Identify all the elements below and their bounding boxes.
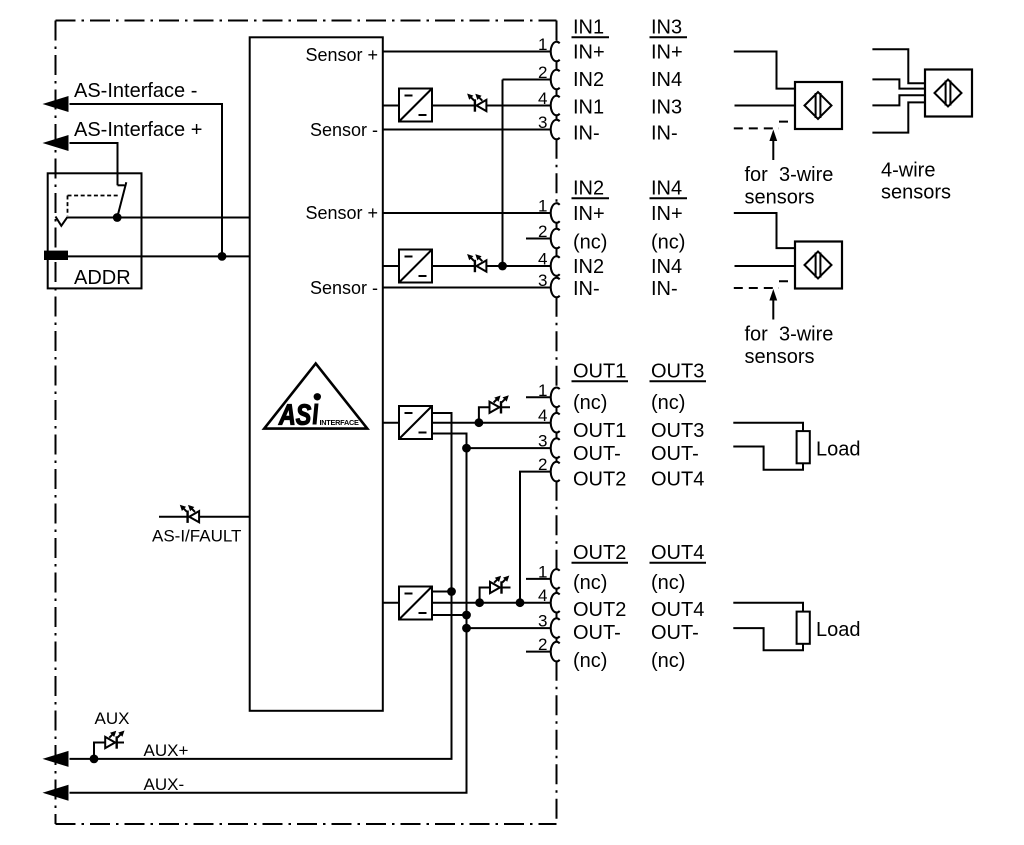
svg-text:AS-Interface -: AS-Interface - <box>74 80 197 102</box>
svg-text:(nc): (nc) <box>651 232 685 254</box>
connector socket IN1 pin1 <box>551 42 560 62</box>
svg-text:2: 2 <box>538 455 547 474</box>
wire switch output to module box <box>67 217 250 219</box>
wire module to opto U2 <box>383 265 399 267</box>
wire opto U3 to pin 4 OUT1 <box>432 422 551 424</box>
stub pin 1 (nc) OUT1 group <box>526 396 551 398</box>
junction opto U4 top / AUX+ rail <box>447 587 456 596</box>
connector socket OUT1 pin2 <box>551 462 560 482</box>
svg-text:(nc): (nc) <box>573 392 607 414</box>
svg-text:for 3-wire: for 3-wire <box>745 324 834 346</box>
wire AS-Interface - horizontal <box>70 103 223 105</box>
module electronics box <box>250 37 383 711</box>
wire 3-wire sensor1 brown <box>734 52 795 89</box>
svg-text:OUT-: OUT- <box>651 622 699 644</box>
svg-text:(nc): (nc) <box>651 650 685 672</box>
connector socket OUT1 pin1 <box>551 388 560 408</box>
stub pin 1 (nc) OUT2 group <box>526 578 551 580</box>
wire pin 2 OUT2-link (OUT1) <box>520 472 551 603</box>
wire AS-Interface + horizontal <box>70 142 118 144</box>
svg-text:sensors: sensors <box>745 187 815 209</box>
svg-text:OUT2: OUT2 <box>573 542 626 564</box>
svg-text:OUT-: OUT- <box>651 443 699 465</box>
sensor symbol 4-wire <box>925 70 972 117</box>
svg-text:Sensor -: Sensor - <box>310 120 378 140</box>
svg-text:AS-I/FAULT: AS-I/FAULT <box>152 527 241 546</box>
module boundary dash-dot border (bottom) <box>56 823 557 825</box>
svg-text:AUX-: AUX- <box>144 775 185 794</box>
svg-text:1: 1 <box>538 35 547 54</box>
opto-coupler U1 (IN1) <box>399 89 432 122</box>
LED OUT2 <box>490 582 500 593</box>
wire ADDR bottom to module box <box>66 255 250 257</box>
wire opto U3 bottom output to OUT- rail <box>70 434 467 793</box>
wire load2 top <box>733 603 803 612</box>
wire OUT1 LED stub <box>479 407 510 422</box>
svg-text:OUT2: OUT2 <box>573 599 626 621</box>
junction OUT1 LED <box>475 418 484 427</box>
svg-text:AUX: AUX <box>95 709 130 728</box>
svg-text:Load: Load <box>816 619 861 641</box>
wire Sensor- (IN1) to pin 3 <box>383 129 551 131</box>
connector socket IN2 pin1 <box>551 203 560 223</box>
connector socket IN2 pin2 <box>551 229 560 249</box>
svg-text:3: 3 <box>538 432 547 451</box>
svg-text:4: 4 <box>538 89 547 108</box>
switch actuator dashed link vertical <box>67 196 69 216</box>
stub pin 2 (nc) OUT2 group <box>526 651 551 653</box>
junction OUT2-link/pin4 <box>516 598 525 607</box>
svg-text:3: 3 <box>538 271 547 290</box>
module boundary dash-dot border (left) <box>55 21 57 825</box>
wire AS-Interface + vertical drop to switch <box>117 142 119 185</box>
svg-text:Sensor +: Sensor + <box>305 45 378 65</box>
svg-text:4-wire: 4-wire <box>881 160 935 182</box>
svg-text:for 3-wire: for 3-wire <box>745 164 834 186</box>
wire pin 2 IN2 horizontal <box>503 79 552 81</box>
wire opto U4 top output <box>432 591 452 593</box>
wire 3-wire sensor1 black <box>735 105 796 107</box>
connector socket IN1 pin4 <box>551 96 560 116</box>
svg-text:Load: Load <box>816 439 861 461</box>
connector socket OUT1 pin4 <box>551 413 560 433</box>
svg-text:IN-: IN- <box>573 123 600 145</box>
wire Sensor- (IN2) to pin 3 <box>383 287 551 289</box>
svg-text:IN+: IN+ <box>573 42 605 64</box>
sensor symbol 3-wire #2 <box>795 242 842 289</box>
svg-text:IN1: IN1 <box>573 17 604 39</box>
wire Sensor+ (IN1) to pin 1 <box>383 51 551 53</box>
opto-coupler U3 (OUT1) <box>399 406 432 439</box>
wire 3-wire sensor1 blue dashed <box>734 127 779 129</box>
svg-text:OUT1: OUT1 <box>573 420 626 442</box>
svg-text:1: 1 <box>538 197 547 216</box>
svg-text:IN3: IN3 <box>651 97 682 119</box>
svg-text:IN2: IN2 <box>573 69 604 91</box>
svg-text:2: 2 <box>538 63 547 82</box>
AS-Interface logo <box>264 364 367 429</box>
svg-text:AS-Interface +: AS-Interface + <box>74 119 202 141</box>
svg-text:(nc): (nc) <box>573 572 607 594</box>
svg-text:IN3: IN3 <box>651 17 682 39</box>
junction IN2 pin2-link/pin4 <box>498 262 507 271</box>
wire 4-wire sensor line2 <box>872 79 925 88</box>
junction OUT2 LED <box>475 598 484 607</box>
svg-text:OUT3: OUT3 <box>651 361 704 383</box>
svg-text:OUT1: OUT1 <box>573 361 626 383</box>
arrow AS-Interface - terminal <box>43 96 69 112</box>
junction AUX LED <box>90 755 99 764</box>
sensor symbol 3-wire #1 <box>795 82 842 129</box>
connector socket OUT1 pin3 <box>551 438 560 458</box>
opto-coupler U2 (IN2) <box>399 250 432 283</box>
wire module to opto U4 <box>383 602 399 604</box>
wire 4-wire sensor line4 <box>872 102 925 132</box>
connector socket IN2 pin3 <box>551 278 560 298</box>
connector socket IN1 pin3 <box>551 120 560 140</box>
LED IN2 <box>477 260 487 271</box>
svg-text:AS: AS <box>278 398 312 431</box>
svg-text:INTERFACE: INTERFACE <box>320 418 359 427</box>
ADDR terminal black bar <box>44 251 68 260</box>
arrow AUX- terminal <box>43 785 69 801</box>
svg-text:(nc): (nc) <box>573 650 607 672</box>
switch fixed contact tick <box>118 184 125 186</box>
switch actuator arrowhead <box>56 217 68 226</box>
wire 4-wire sensor line3 <box>872 95 925 105</box>
wire opto U4 to pin 4 OUT2 <box>432 602 551 604</box>
switch pivot junction <box>113 213 122 222</box>
svg-text:3: 3 <box>538 113 547 132</box>
wire AUX LED stub <box>94 743 124 759</box>
svg-text:2: 2 <box>538 635 547 654</box>
svg-text:(nc): (nc) <box>573 232 607 254</box>
arrow pointer 3-wire #2 <box>772 298 774 320</box>
opto-coupler U4 (OUT2) <box>399 587 432 620</box>
svg-text:4: 4 <box>538 586 547 605</box>
svg-text:IN+: IN+ <box>651 42 683 64</box>
svg-text:IN4: IN4 <box>651 69 682 91</box>
svg-text:IN1: IN1 <box>573 97 604 119</box>
svg-text:IN2: IN2 <box>573 178 604 200</box>
wire opto U4 bottom output <box>432 614 467 616</box>
resistor load OUT2 <box>797 612 810 644</box>
svg-text:OUT3: OUT3 <box>651 420 704 442</box>
connector socket OUT2 pin2 <box>551 642 560 662</box>
svg-text:OUT-: OUT- <box>573 622 621 644</box>
svg-text:Sensor +: Sensor + <box>305 203 378 223</box>
wire 3-wire sensor2 blue dashed <box>734 287 779 289</box>
svg-text:IN+: IN+ <box>651 203 683 225</box>
switch actuator dashed link horizontal <box>68 195 119 197</box>
stub pin 2 (nc) IN2 group <box>526 238 551 240</box>
svg-text:(nc): (nc) <box>651 392 685 414</box>
svg-text:OUT4: OUT4 <box>651 599 704 621</box>
LED OUT1 <box>490 402 500 413</box>
svg-text:OUT-: OUT- <box>573 443 621 465</box>
wire AS-I/FAULT LED <box>159 516 250 518</box>
wire module to opto U1 <box>383 105 399 107</box>
LED IN1 <box>477 100 487 111</box>
svg-text:4: 4 <box>538 406 547 425</box>
wire 3-wire sensor2 brown <box>734 213 795 248</box>
wire AS-Interface - vertical drop <box>221 103 223 256</box>
junction OUT1 pin3 <box>462 444 471 453</box>
svg-text:IN-: IN- <box>573 278 600 300</box>
svg-text:IN4: IN4 <box>651 178 682 200</box>
arrow AS-Interface + terminal <box>43 135 69 151</box>
svg-text:IN-: IN- <box>651 123 678 145</box>
connector socket OUT2 pin3 <box>551 618 560 638</box>
connector socket OUT2 pin4 <box>551 593 560 613</box>
wire 3-wire sensor2 black <box>735 265 796 267</box>
svg-text:(nc): (nc) <box>651 572 685 594</box>
wire load2 bottom <box>733 628 803 650</box>
svg-text:4: 4 <box>538 250 547 269</box>
svg-text:IN-: IN- <box>651 278 678 300</box>
wire pin 3 OUT- (OUT2) <box>467 627 552 629</box>
wire pin 2 IN2 vertical link <box>502 80 504 267</box>
wire load1 bottom <box>733 447 803 470</box>
svg-text:sensors: sensors <box>881 182 951 204</box>
switch lever <box>117 182 126 217</box>
svg-text:1: 1 <box>538 562 547 581</box>
module boundary dash-dot border (top) <box>56 20 557 22</box>
wire opto U2 to pin 4 <box>432 265 551 267</box>
wire 4-wire sensor line1 <box>872 49 925 83</box>
svg-text:3: 3 <box>538 612 547 631</box>
wire module to opto U3 <box>383 422 399 424</box>
wire load1 top <box>733 423 803 431</box>
svg-text:IN2: IN2 <box>573 256 604 278</box>
wire pin 3 OUT- (OUT1) <box>467 447 552 449</box>
LED AS-I/FAULT <box>189 511 199 522</box>
wire OUT2 LED stub <box>480 588 511 603</box>
arrow AUX+ terminal <box>43 751 69 767</box>
svg-text:OUT2: OUT2 <box>573 469 626 491</box>
svg-text:IN4: IN4 <box>651 256 682 278</box>
junction opto U4 bottom / OUT- rail <box>462 611 471 620</box>
svg-text:OUT4: OUT4 <box>651 542 704 564</box>
svg-text:sensors: sensors <box>745 346 815 368</box>
wire opto U3 top output to AUX+ rail <box>70 413 452 759</box>
LED AUX <box>105 737 115 748</box>
wire opto U1 to pin 4 <box>432 105 551 107</box>
svg-text:ADDR: ADDR <box>74 267 131 289</box>
connector socket OUT2 pin1 <box>551 569 560 589</box>
arrow pointer 3-wire #1 <box>772 138 774 160</box>
wire Sensor+ (IN2) to pin 1 <box>383 212 551 214</box>
svg-text:AUX+: AUX+ <box>144 741 189 760</box>
junction OUT2 pin3 <box>462 624 471 633</box>
svg-text:Sensor -: Sensor - <box>310 278 378 298</box>
resistor load OUT1 <box>797 431 810 463</box>
svg-text:OUT4: OUT4 <box>651 469 704 491</box>
connector socket IN2 pin4 <box>551 256 560 276</box>
ADDR box <box>48 173 142 288</box>
svg-text:2: 2 <box>538 222 547 241</box>
junction AS-Interface-/ADDR wire <box>218 252 227 261</box>
connector dash-dot line (right border) x=556.5 <box>556 21 558 43</box>
svg-text:IN+: IN+ <box>573 203 605 225</box>
svg-text:1: 1 <box>538 381 547 400</box>
connector socket IN1 pin2 <box>551 70 560 90</box>
